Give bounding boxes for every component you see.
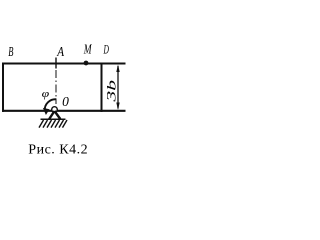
svg-text:M: M [83,42,92,57]
support triangle [49,111,60,119]
svg-text:φ: φ [42,89,50,100]
pivot circle O [52,107,58,113]
plate left edge [2,63,4,112]
svg-text:Рис. К4.2: Рис. К4.2 [28,143,88,158]
arc arrowhead [43,108,50,115]
ground hatching [39,120,67,128]
angle arc phi [45,99,57,110]
plate top edge with extension line [2,63,126,65]
svg-text:0: 0 [62,94,69,109]
dimension arrow down [116,103,119,111]
dimension line 3b [117,66,119,109]
dash-dot centerline A to O [55,70,57,104]
plate right edge [101,63,103,112]
svg-text:B: B [8,45,13,60]
tick at A [55,58,57,69]
svg-text:3b: 3b [104,79,119,103]
point M dot [84,61,89,66]
svg-text:A: A [56,44,64,59]
ground line [41,118,66,120]
plate bottom edge with extension line [2,110,126,112]
dimension arrow up [116,65,119,73]
svg-text:D: D [103,42,109,57]
